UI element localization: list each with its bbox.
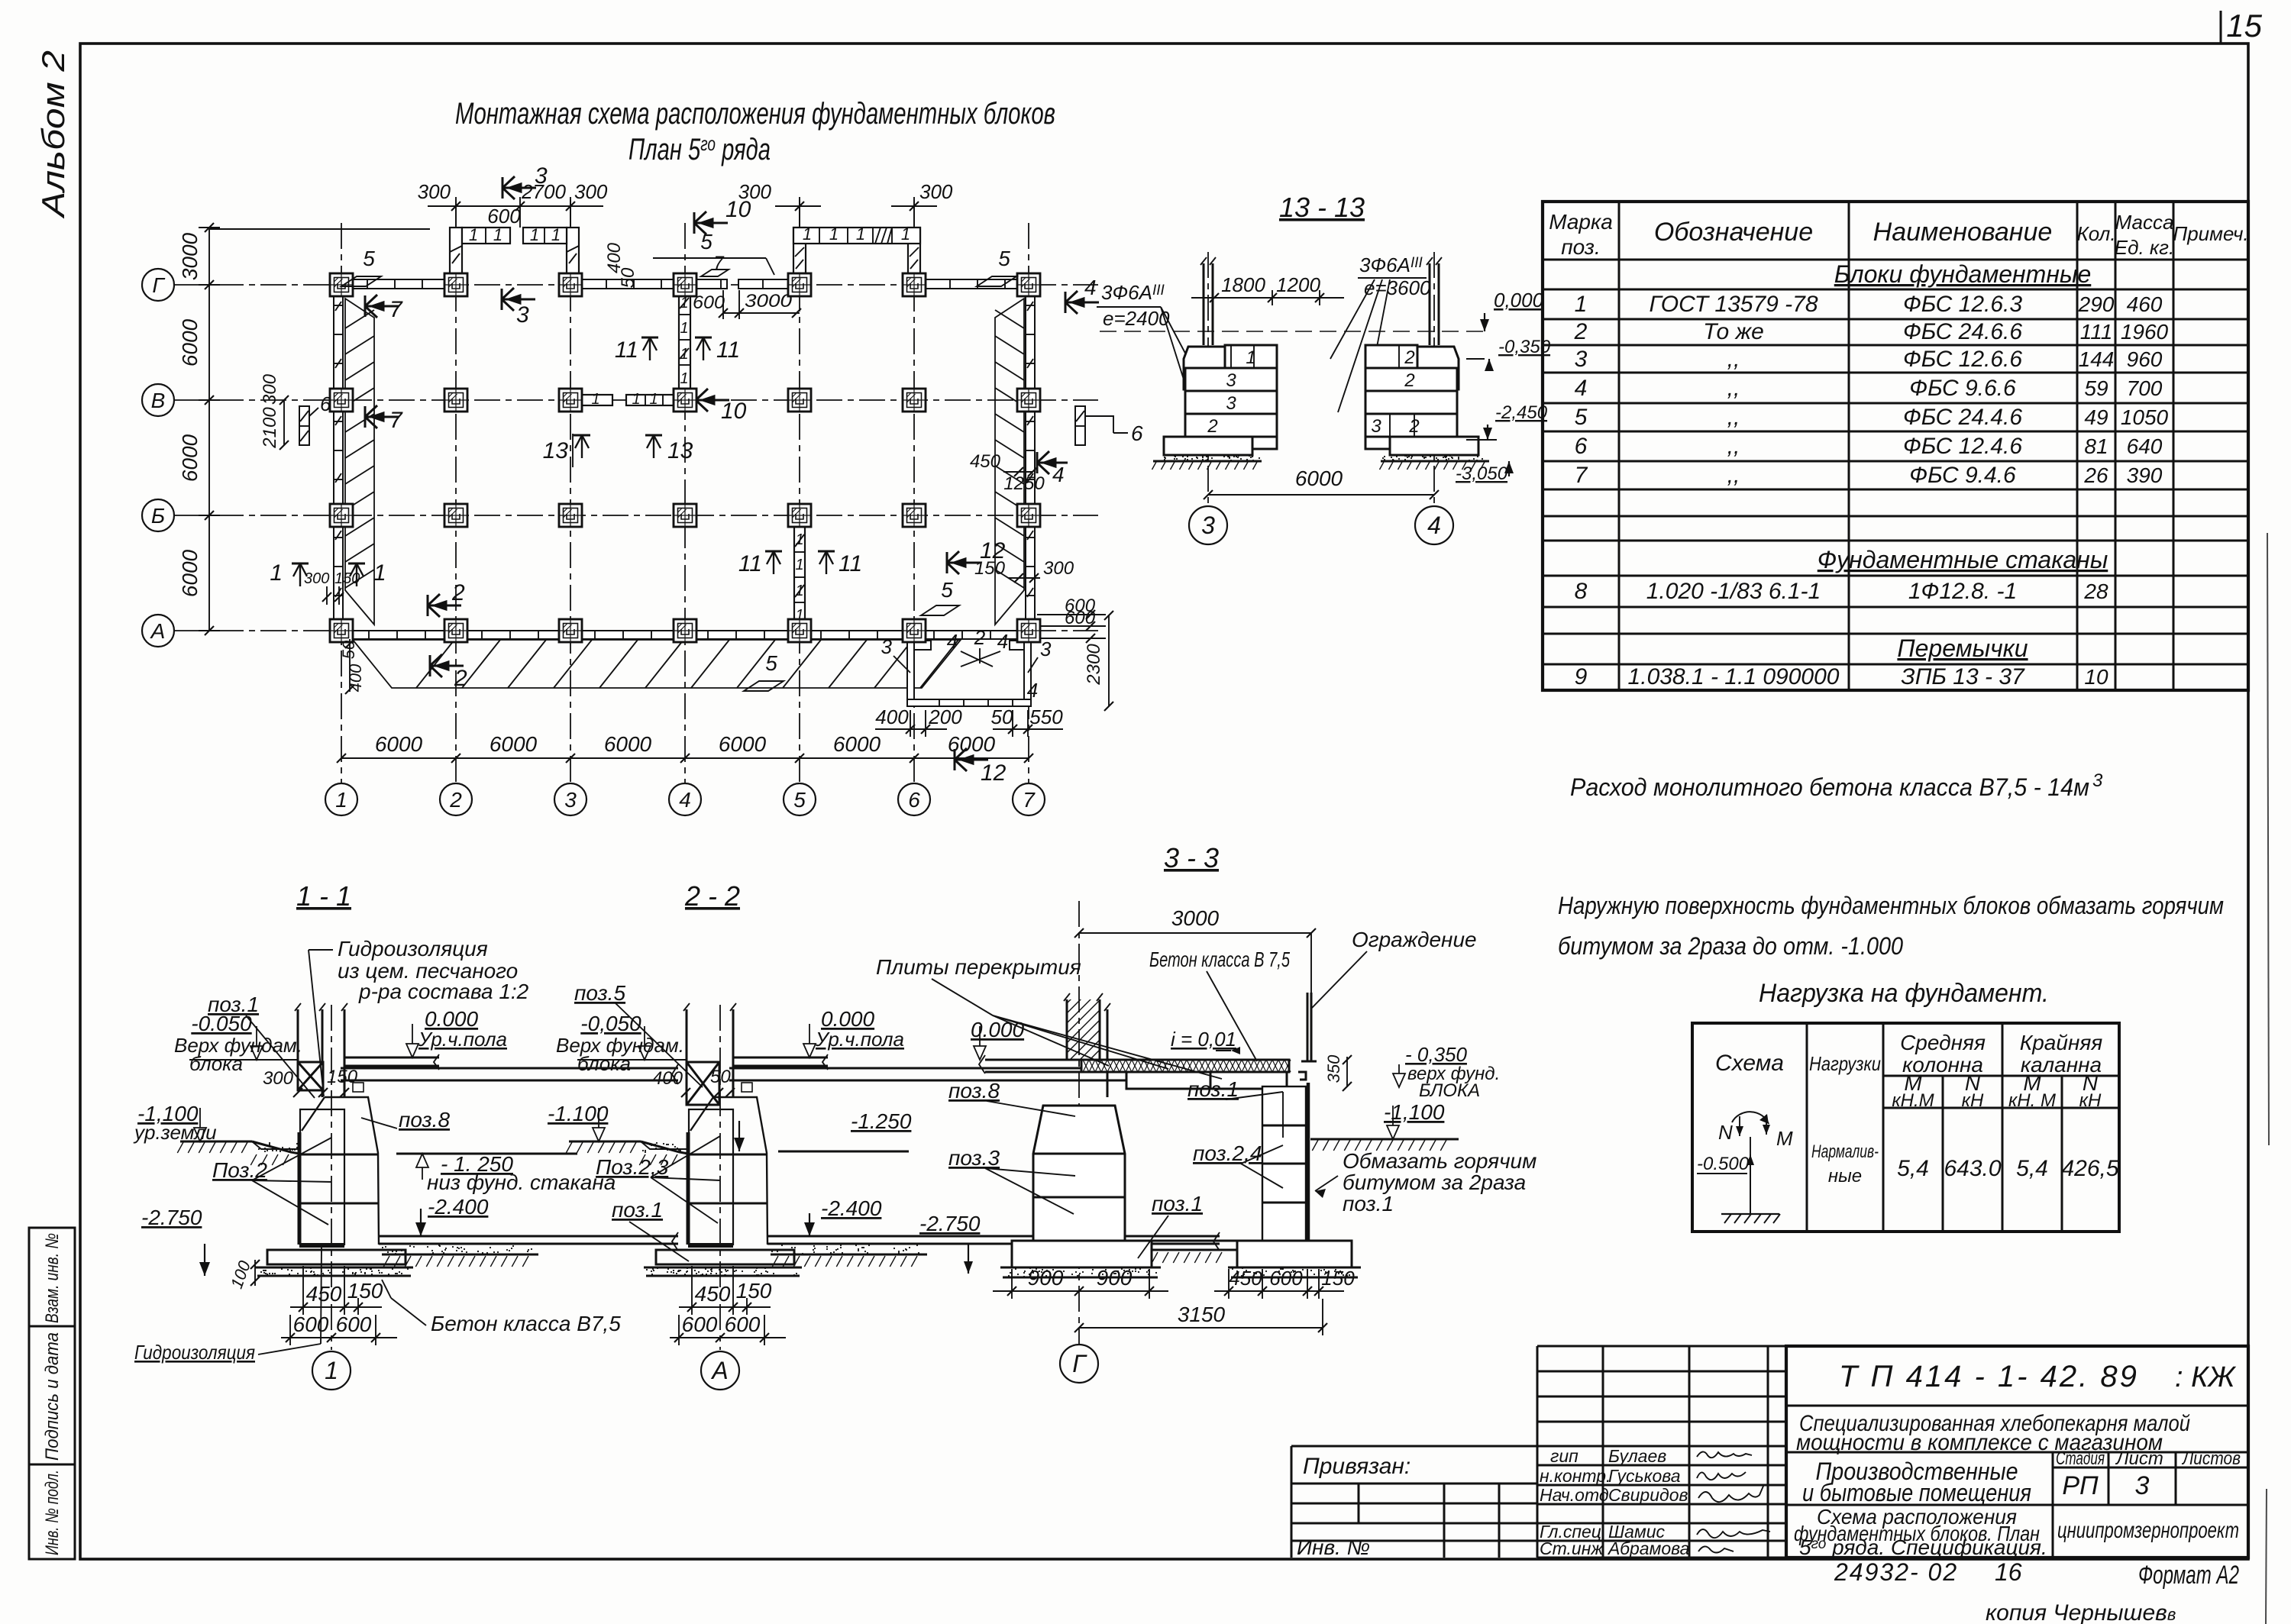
svg-text:N: N [1718,1121,1733,1144]
svg-text:Крайняя: Крайняя [2020,1031,2103,1054]
svg-text:1: 1 [373,560,386,586]
svg-text:16: 16 [1995,1558,2022,1586]
svg-text:Ур.ч.пола: Ур.ч.пола [418,1028,507,1051]
svg-text:7: 7 [1023,788,1036,812]
svg-text:- 0,350: - 0,350 [1405,1043,1467,1066]
svg-text:-0.500: -0.500 [1697,1154,1750,1174]
svg-text:900: 900 [1097,1266,1133,1290]
svg-text:150: 150 [736,1279,772,1303]
svg-text:111: 111 [2080,320,2113,344]
svg-text:6: 6 [1575,434,1588,459]
svg-text:700: 700 [2127,376,2163,400]
svg-text:150: 150 [334,570,360,587]
title block [1786,1346,2248,1558]
svg-text:5го ряда. Спецификация.: 5го ряда. Спецификация. [1799,1535,2047,1559]
svg-text:Альбом 2: Альбом 2 [35,50,71,220]
svg-text:поз.2,4: поз.2,4 [1193,1141,1262,1165]
svg-text:6: 6 [908,788,920,812]
left stamp column [29,1228,75,1559]
svg-text:7: 7 [389,297,403,322]
svg-text:640: 640 [2127,434,2163,458]
svg-text:600: 600 [682,1312,718,1336]
svg-text:3: 3 [1201,512,1215,539]
svg-text:Монтажная схема расположения: Монтажная схема расположения фундаментны… [455,97,1055,131]
svg-text:2: 2 [1574,319,1588,344]
wall at axis 5 between Б and А [794,527,805,631]
grid number circles 1-7 [325,783,357,815]
svg-text:Взам. инв. №: Взам. инв. № [42,1233,63,1323]
svg-text:1: 1 [649,391,658,408]
svg-text:ные: ные [1828,1166,1862,1187]
svg-text:РП: РП [2062,1471,2099,1500]
foundation stakan squares at grid intersections [330,273,353,296]
svg-text:Г: Г [1072,1350,1087,1377]
section 13-13 block footings at axes 3 and 4 [1097,192,1551,544]
svg-text:1: 1 [803,224,812,244]
svg-text:цниипромзернопроект: цниипромзернопроект [2057,1518,2239,1543]
svg-text:6000: 6000 [375,732,423,756]
svg-text:1: 1 [829,224,839,244]
svg-text:1: 1 [469,225,478,244]
svg-text:В: В [151,389,166,412]
svg-text:Бетон класса В7,5: Бетон класса В7,5 [431,1312,621,1335]
svg-text:Б: Б [151,504,165,528]
svg-text:3: 3 [516,302,529,328]
svg-text:Т П 414 - 1- 42. 89: Т П 414 - 1- 42. 89 [1839,1360,2139,1393]
svg-text:-2,450: -2,450 [1495,402,1548,423]
svg-text:550: 550 [1029,705,1063,728]
svg-text:300: 300 [574,180,608,203]
svg-text:5: 5 [998,247,1010,270]
svg-text:ФБС 9.4.6: ФБС 9.4.6 [1909,463,2016,488]
svg-text:4: 4 [1084,276,1097,299]
svg-text:ФБС 12.6.6: ФБС 12.6.6 [1903,347,2022,372]
svg-text:600: 600 [725,1312,761,1336]
svg-text:Нагрузки: Нагрузки [1809,1052,1881,1075]
svg-text:А: А [710,1357,728,1384]
svg-text:Марка: Марка [1549,210,1613,234]
svg-text:11: 11 [839,551,862,576]
svg-text:поз.1: поз.1 [612,1198,663,1222]
svg-text:р-ра состава 1:2: р-ра состава 1:2 [358,980,529,1003]
svg-text:6000: 6000 [490,732,538,756]
svg-text:11: 11 [716,337,740,363]
svg-text:1 - 1: 1 - 1 [296,880,351,912]
svg-text:10: 10 [721,399,747,424]
svg-text:2: 2 [1404,370,1414,391]
svg-text:2: 2 [974,626,986,649]
svg-text:поз.8: поз.8 [399,1108,450,1132]
svg-text:600: 600 [487,205,521,228]
svg-text:3: 3 [1226,370,1236,391]
svg-text:1: 1 [901,224,910,244]
svg-text:ЗПБ 13 - 37: ЗПБ 13 - 37 [1901,664,2025,689]
svg-text:400: 400 [875,705,909,728]
svg-text:50: 50 [991,705,1013,728]
svg-text:Бетон класса В 7,5: Бетон класса В 7,5 [1149,948,1290,971]
svg-text:6000: 6000 [604,732,652,756]
svg-text:0.000: 0.000 [971,1018,1024,1041]
svg-text:ФБС 12.4.6: ФБС 12.4.6 [1903,434,2022,459]
vestibule between axes 2-3 [450,228,579,279]
svg-text:поз.8: поз.8 [948,1079,1000,1103]
svg-text:13: 13 [543,438,569,463]
svg-text:блока: блока [577,1052,631,1075]
svg-text:Стадия: Стадия [2056,1448,2105,1469]
svg-text:-2.400: -2.400 [821,1196,882,1220]
svg-text:1: 1 [795,557,803,573]
svg-text:1: 1 [530,225,539,244]
svg-text:150: 150 [347,1279,383,1303]
svg-text:2: 2 [449,788,462,812]
building walls: left, right, top Г, bottom А [334,279,1035,639]
svg-text:3000: 3000 [1171,906,1220,930]
svg-text:3: 3 [881,635,893,658]
svg-text:4: 4 [1052,463,1065,486]
scan edge artifacts [2267,533,2269,1145]
svg-text:7: 7 [1575,463,1588,488]
svg-text:Свиридов: Свиридов [1608,1485,1688,1505]
svg-text:1: 1 [325,1357,338,1384]
privyazan box [1291,1446,1537,1558]
svg-text:Булаев: Булаев [1608,1446,1666,1466]
svg-text:4: 4 [1027,679,1038,702]
svg-text:1: 1 [856,224,865,244]
bottom dimension line 6000 x6 [337,754,1033,763]
svg-text:Гидроизоляция: Гидроизоляция [338,937,488,961]
svg-text:ФБС 9.6.6: ФБС 9.6.6 [1909,376,2016,401]
svg-text:Г: Г [152,273,165,297]
svg-text:6000: 6000 [178,318,202,366]
svg-text:6: 6 [320,392,331,415]
svg-text:-0,350: -0,350 [1498,337,1551,357]
svg-text:1: 1 [551,225,561,244]
svg-text:600: 600 [1065,608,1096,628]
svg-text:600: 600 [293,1312,329,1336]
svg-text:поз.5: поз.5 [574,981,625,1005]
svg-text:-0,050: -0,050 [580,1012,641,1035]
section 1-1 foundation under column [177,880,678,1350]
svg-text:300: 300 [919,180,953,203]
main title [455,97,1055,166]
svg-text:3: 3 [2135,1471,2150,1500]
svg-text:1: 1 [591,391,599,408]
svg-text:11: 11 [615,337,638,363]
svg-text:Обозначение: Обозначение [1654,218,1813,247]
svg-text:50: 50 [339,640,358,659]
svg-text:1250: 1250 [1003,473,1045,494]
svg-text:Наименование: Наименование [1873,218,2053,247]
svg-text:2300: 2300 [1084,644,1104,686]
svg-text:1960: 1960 [2121,320,2169,344]
svg-text:ФБС 24.6.6: ФБС 24.6.6 [1903,319,2022,344]
hatched block strip below А wall [353,640,961,688]
svg-text:4: 4 [947,630,958,653]
grid axes dash-dot lines [175,200,1098,783]
svg-text:Масса: Масса [2115,211,2174,234]
svg-text:5: 5 [941,578,953,602]
svg-text:поз.1: поз.1 [1343,1192,1394,1216]
svg-text:гип: гип [1550,1446,1578,1466]
svg-text:БЛОКА: БЛОКА [1419,1080,1480,1101]
svg-text:То же: То же [1703,319,1764,344]
svg-text:,,: ,, [1727,347,1740,372]
svg-text:4: 4 [997,630,1008,653]
svg-text:-0.050: -0.050 [191,1012,252,1035]
page number 15 [2221,8,2263,44]
svg-text:копия Чернышевв: копия Чернышевв [1986,1600,2176,1624]
svg-text:Листов: Листов [2181,1448,2241,1469]
svg-text:3150: 3150 [1178,1303,1226,1326]
svg-text:Нач.отд: Нач.отд [1540,1485,1609,1505]
svg-text:2 - 2: 2 - 2 [684,880,740,912]
svg-text:1: 1 [335,788,347,812]
svg-text:кН: кН [2079,1090,2102,1111]
svg-text:300: 300 [1043,558,1074,579]
svg-text:битумом за 2раза: битумом за 2раза [1343,1170,1526,1194]
svg-text:450: 450 [695,1282,731,1306]
svg-text:49: 49 [2084,405,2108,429]
svg-text:3 - 3: 3 - 3 [1164,842,1219,873]
svg-text:300: 300 [263,1068,294,1089]
grid letter circles Г В Б А [142,269,174,301]
svg-text:Обмазать горячим: Обмазать горячим [1343,1149,1536,1173]
svg-text:Привязан:: Привязан: [1303,1454,1410,1479]
svg-text:кН.М: кН.М [1892,1090,1934,1111]
svg-text:Поз.2,3: Поз.2,3 [596,1155,669,1179]
left dimension line 3000/6000 [199,223,430,635]
svg-text:3000: 3000 [745,291,793,312]
svg-text:кН: кН [1962,1090,1984,1111]
svg-text:1: 1 [680,346,688,363]
svg-text:600: 600 [1269,1267,1303,1290]
svg-text:Ур.ч.пола: Ур.ч.пола [815,1028,904,1051]
svg-text:Кол.: Кол. [2076,222,2115,245]
svg-text:Фундаментные стаканы: Фундаментные стаканы [1818,546,2108,573]
svg-text:1: 1 [795,531,803,548]
svg-text:ГОСТ 13579 -78: ГОСТ 13579 -78 [1649,292,1818,317]
svg-text:13 - 13: 13 - 13 [1279,192,1365,223]
svg-text:и бытовые помещения: и бытовые помещения [1802,1479,2031,1506]
svg-text:Наружную поверхность фундамент: Наружную поверхность фундаментных блоков… [1558,892,2224,919]
svg-text:3000: 3000 [178,232,202,280]
svg-text:Гуськова: Гуськова [1608,1466,1681,1486]
svg-text:6000: 6000 [178,434,202,482]
svg-text:150: 150 [1321,1267,1355,1290]
svg-text:Инв. № подл.: Инв. № подл. [42,1470,63,1555]
svg-text:3: 3 [1575,347,1588,372]
svg-text:2: 2 [451,580,465,605]
svg-text:600: 600 [336,1312,372,1336]
svg-text:6: 6 [1131,421,1143,445]
pit between axes 6-7 below А [907,639,1031,706]
svg-text:Гидроизоляция: Гидроизоляция [134,1341,255,1364]
svg-text:Ед. кг.: Ед. кг. [2115,236,2174,259]
svg-text:-3,050: -3,050 [1456,463,1508,484]
section 3-3 foundation with wall and column [876,842,1536,1383]
svg-text:6000: 6000 [833,732,881,756]
svg-text:390: 390 [2127,463,2163,487]
svg-text:M: M [1776,1127,1793,1150]
svg-text:Плиты перекрытия: Плиты перекрытия [876,955,1081,979]
svg-text:7: 7 [389,408,403,433]
svg-text:-2.750: -2.750 [919,1212,981,1235]
detail 6 block right [1075,406,1085,445]
svg-text:26: 26 [2083,463,2108,487]
svg-text:300: 300 [418,180,451,203]
svg-text:низ фунд. стакана: низ фунд. стакана [427,1170,616,1194]
svg-text:Нагрузка на фундамент.: Нагрузка на фундамент. [1759,979,2049,1008]
svg-text:поз.3: поз.3 [948,1146,1000,1170]
svg-text:i = 0,01: i = 0,01 [1171,1028,1236,1051]
svg-text:е=2400: е=2400 [1103,307,1170,330]
svg-text:150: 150 [327,1067,358,1087]
svg-text:Подпись и дата: Подпись и дата [42,1332,63,1461]
svg-text:,,: ,, [1727,434,1740,459]
svg-text:24932- 02: 24932- 02 [1834,1558,1958,1586]
svg-text:Ограждение: Ограждение [1352,928,1477,951]
svg-text:: КЖ: : КЖ [2175,1361,2237,1393]
svg-text:,,: ,, [1727,376,1740,401]
detail 6 block left [299,406,309,445]
svg-text:5,4: 5,4 [2016,1156,2048,1181]
svg-text:450: 450 [1229,1267,1262,1290]
svg-text:2: 2 [1404,347,1414,368]
svg-text:426,5: 426,5 [2061,1156,2118,1181]
svg-text:кН. М: кН. М [2008,1090,2056,1111]
svg-text:300: 300 [260,373,280,405]
svg-text:Инв. №: Инв. № [1297,1535,1370,1559]
svg-text:144: 144 [2079,347,2115,371]
svg-text:1: 1 [795,583,803,599]
svg-text:3: 3 [2092,770,2103,791]
svg-text:Поз.2: Поз.2 [212,1158,267,1182]
svg-text:поз.: поз. [1561,235,1600,259]
svg-text:2100: 2100 [260,407,280,449]
svg-text:3: 3 [1371,416,1381,437]
svg-text:1.038.1 - 1.1 090000: 1.038.1 - 1.1 090000 [1628,664,1840,689]
svg-text:,,: ,, [1727,405,1740,430]
svg-text:1: 1 [680,370,688,387]
svg-text:Расход монолитного бетона к: Расход монолитного бетона класса В7,5 - … [1570,773,2089,801]
svg-text:Лист: Лист [2115,1448,2163,1469]
svg-text:290: 290 [2078,292,2115,316]
vestibule between axes 5-6 [793,228,920,279]
svg-text:3: 3 [1226,393,1236,414]
svg-text:,,: ,, [1727,463,1740,488]
svg-text:Перемычки: Перемычки [1897,634,2028,662]
load table schema sketch [1697,1112,1780,1223]
svg-text:400: 400 [346,663,365,692]
svg-text:5: 5 [765,651,777,675]
svg-text:Примеч.: Примеч. [2173,222,2248,245]
svg-text:13: 13 [667,438,693,463]
svg-text:н.контр.: н.контр. [1540,1466,1611,1486]
svg-text:1800: 1800 [1221,273,1265,296]
svg-text:Абрамова: Абрамова [1607,1538,1689,1558]
svg-text:81: 81 [2084,434,2108,458]
svg-text:11: 11 [738,551,762,576]
svg-text:-2.400: -2.400 [428,1195,489,1219]
svg-text:643.0: 643.0 [1944,1156,2001,1181]
svg-text:План 5го ряда: План 5го ряда [628,132,771,166]
svg-text:6000: 6000 [178,549,202,597]
svg-text:2: 2 [1207,416,1217,437]
svg-text:300: 300 [304,570,329,587]
svg-text:-1.250: -1.250 [851,1109,912,1133]
svg-text:1: 1 [632,391,640,408]
svg-text:150: 150 [974,558,1006,579]
svg-text:поз.1: поз.1 [1152,1192,1203,1216]
svg-text:9: 9 [1575,664,1588,689]
svg-text:10: 10 [2084,665,2108,689]
svg-text:1: 1 [680,320,688,337]
svg-text:Формат А2: Формат А2 [2138,1561,2239,1590]
svg-text:460: 460 [2127,292,2163,316]
svg-text:900: 900 [1028,1266,1064,1290]
svg-text:960: 960 [2127,347,2163,371]
svg-text:поз.1: поз.1 [1188,1077,1239,1101]
svg-text:3: 3 [1040,638,1052,660]
svg-text:6000: 6000 [1295,467,1343,490]
svg-text:Средняя: Средняя [1900,1031,1986,1054]
svg-text:5: 5 [793,788,806,812]
svg-text:10: 10 [725,197,751,222]
specification table [1543,202,2248,690]
svg-text:12: 12 [981,760,1007,786]
svg-text:5,4: 5,4 [1897,1156,1929,1181]
svg-text:ФБС 24.4.6: ФБС 24.4.6 [1903,405,2022,430]
central signature table [1537,1346,1786,1558]
svg-text:450: 450 [970,451,1001,472]
svg-text:400: 400 [652,1068,683,1089]
svg-text:4: 4 [1427,512,1441,539]
svg-text:А: А [150,619,166,643]
svg-text:4: 4 [1575,376,1588,401]
svg-text:5: 5 [700,230,713,253]
svg-text:1050: 1050 [2121,405,2169,429]
svg-text:4: 4 [679,788,691,812]
svg-text:-2.750: -2.750 [141,1206,202,1229]
svg-text:блока: блока [189,1052,243,1075]
svg-text:15: 15 [2226,8,2262,44]
svg-text:1.020 -1/83 6.1-1: 1.020 -1/83 6.1-1 [1646,579,1821,604]
svg-text:1: 1 [1575,292,1588,317]
svg-text:3: 3 [535,163,548,189]
signatures squiggles [1697,1451,1770,1552]
svg-text:Блоки фундаментные: Блоки фундаментные [1834,260,2092,288]
svg-text:Схема: Схема [1715,1051,1784,1076]
svg-text:50: 50 [618,267,638,288]
T-wall at axis 4 [580,289,690,405]
svg-text:ФБС 12.6.3: ФБС 12.6.3 [1903,292,2022,317]
hatched block strip at left wall [345,299,374,625]
svg-text:3: 3 [564,788,577,812]
svg-text:1Ф12.8. -1: 1Ф12.8. -1 [1908,579,2017,604]
svg-text:мощности в комплексе с маг: мощности в комплексе с магазином [1796,1430,2163,1455]
svg-text:Ст.инж: Ст.инж [1540,1538,1604,1558]
svg-text:битумом за 2раза до отм. -1.00: битумом за 2раза до отм. -1.000 [1558,932,1903,960]
section 2-2 annotations [548,981,912,1390]
svg-text:5: 5 [363,247,375,270]
svg-text:8: 8 [1575,579,1588,604]
svg-text:50: 50 [710,1067,731,1087]
svg-text:450: 450 [306,1282,342,1306]
svg-text:1: 1 [493,225,502,244]
svg-text:28: 28 [2083,580,2108,603]
svg-text:200: 200 [928,705,962,728]
svg-text:Нармалив-: Нармалив- [1811,1141,1879,1162]
